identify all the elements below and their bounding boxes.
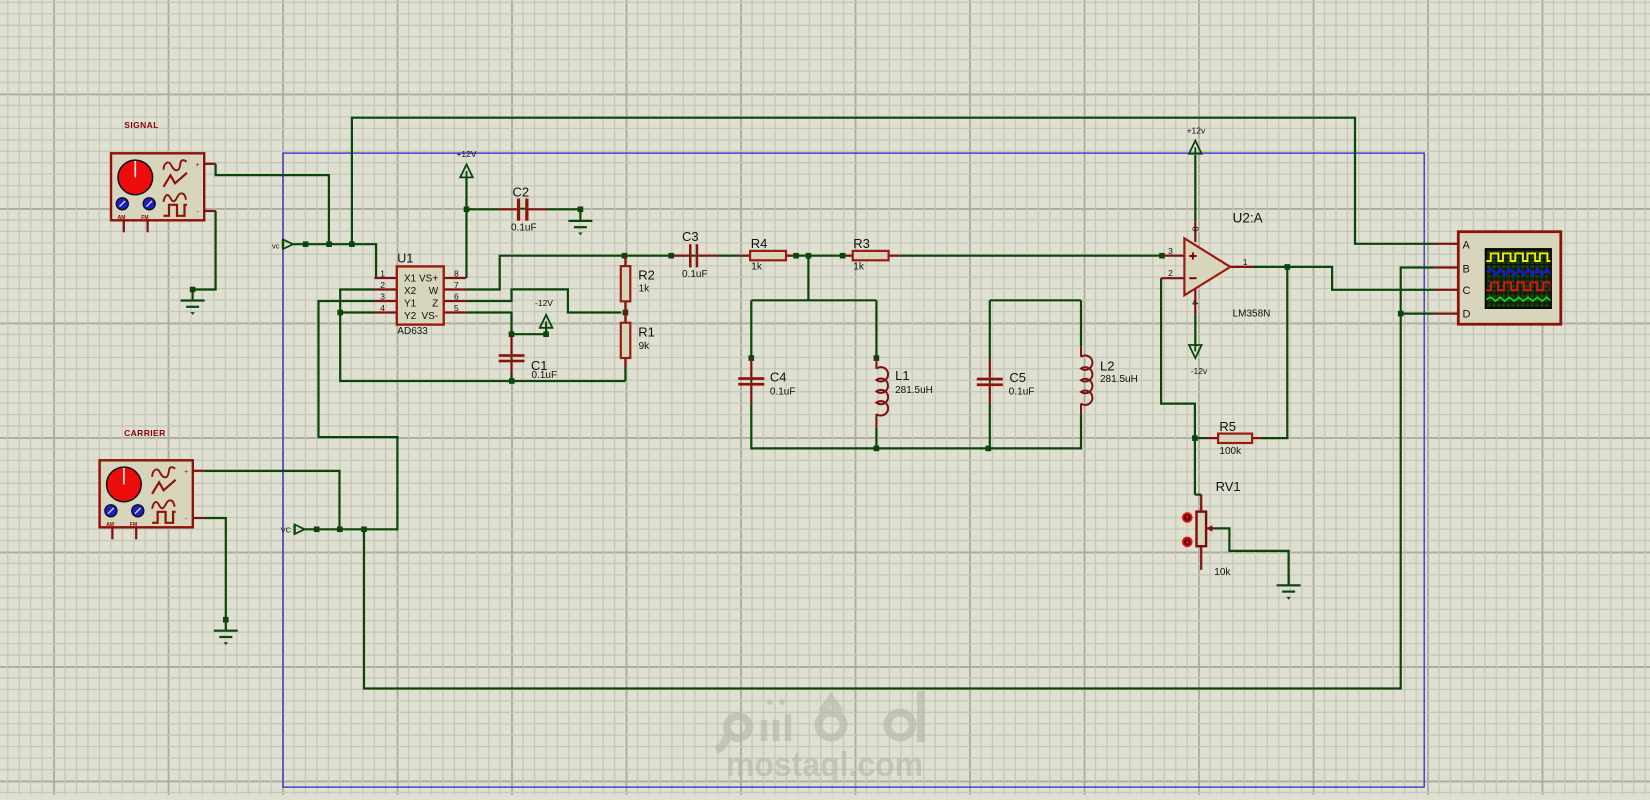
- svg-text:Y2: Y2: [404, 311, 417, 322]
- ground (C2): [568, 210, 592, 235]
- svg-text:AD633: AD633: [397, 326, 428, 337]
- wire node to tank1 top: [807, 256, 809, 301]
- wire carrier - to ground: [204, 518, 226, 620]
- wire -12V arrow stem: [545, 325, 547, 335]
- svg-text:100k: 100k: [1219, 446, 1242, 457]
- wire op-amp output to scope C: [1253, 267, 1434, 290]
- svg-text:U2:A: U2:A: [1233, 211, 1263, 226]
- inductor L2: [1081, 346, 1138, 414]
- ground (carrier generator): [214, 620, 238, 645]
- wire tank2 top bar: [990, 299, 1081, 301]
- svg-text:R2: R2: [638, 268, 655, 283]
- svg-text:1k: 1k: [639, 283, 651, 294]
- wire feedback pin2 to R5 left and RV1: [1161, 278, 1195, 494]
- capacitor C5: [977, 359, 1035, 404]
- capacitor C3: [674, 229, 718, 280]
- wire scope pin stubs A B C D: [1434, 244, 1458, 314]
- svg-text:VC: VC: [281, 526, 292, 535]
- svg-text:B: B: [1463, 263, 1470, 275]
- wire tank1 right drop: [875, 300, 877, 358]
- svg-text:281.5uH: 281.5uH: [895, 385, 933, 396]
- svg-text:R1: R1: [638, 325, 655, 340]
- wire U1 pin4 to pin2 riser: [340, 311, 374, 313]
- wire signal generator + to VC node: [216, 164, 329, 244]
- svg-text:0.1uF: 0.1uF: [511, 223, 537, 234]
- svg-text:VS+: VS+: [419, 274, 438, 285]
- wire branch to scope D: [1401, 313, 1434, 315]
- svg-text:Y1: Y1: [404, 299, 417, 310]
- svg-text:X1: X1: [404, 274, 417, 285]
- wire VC node row to U1 pin1: [293, 244, 376, 278]
- wire RV1 top jog: [1195, 494, 1201, 496]
- resistor R4: [738, 236, 793, 273]
- svg-text:0.1uF: 0.1uF: [1009, 387, 1035, 398]
- wire tank2 right drop: [1080, 300, 1082, 346]
- carrier generator CARRIER: [100, 428, 205, 540]
- svg-text:0.1uF: 0.1uF: [532, 370, 558, 381]
- oscilloscope (4-channel): [1458, 232, 1564, 325]
- wire U1 pin3 to carrier VC row: [305, 301, 398, 529]
- svg-text:A: A: [1463, 240, 1471, 252]
- svg-text:mostaql.com: mostaql.com: [726, 746, 923, 784]
- svg-text:U1: U1: [397, 252, 413, 266]
- wire R4 to R3: [793, 255, 845, 257]
- wire R3 to op-amp pin3: [899, 255, 1164, 257]
- wire C2 left: [467, 208, 500, 210]
- svg-text:L1: L1: [895, 368, 909, 383]
- svg-text:VS-: VS-: [422, 311, 439, 322]
- svg-text:C4: C4: [770, 370, 787, 385]
- svg-text:LM358N: LM358N: [1233, 309, 1271, 320]
- wire tank1 left drop: [750, 300, 752, 358]
- svg-text:SIGNAL: SIGNAL: [124, 120, 159, 130]
- wire R1 bottom to rail: [624, 367, 626, 381]
- svg-text:C2: C2: [513, 185, 530, 200]
- power -12v (op-amp): [1189, 345, 1208, 376]
- wire signal generator - to ground: [193, 211, 216, 290]
- node VC (upper): [272, 239, 293, 250]
- wire junction dots: [190, 207, 1404, 623]
- svg-text:8: 8: [454, 268, 459, 278]
- svg-text:D: D: [1463, 309, 1471, 321]
- svg-text:0.1uF: 0.1uF: [770, 387, 796, 398]
- wire C3 to R4: [718, 255, 739, 257]
- wire top rail to scope A: [352, 118, 1434, 245]
- svg-text:vc: vc: [272, 242, 280, 251]
- svg-text:2: 2: [1168, 268, 1173, 278]
- signal generator SIGNAL: [111, 120, 216, 233]
- svg-text:C: C: [1463, 285, 1471, 297]
- wire tank1 top bar: [751, 299, 876, 301]
- svg-text:1k: 1k: [853, 262, 865, 273]
- resistor R2: [621, 256, 655, 313]
- svg-text:W: W: [429, 286, 439, 297]
- ground (RV1): [1277, 574, 1301, 599]
- svg-text:L2: L2: [1100, 359, 1114, 374]
- svg-text:-12V: -12V: [535, 298, 553, 308]
- capacitor C1: [499, 334, 557, 381]
- svg-text:-12v: -12v: [1191, 366, 1208, 376]
- svg-text:R5: R5: [1219, 419, 1236, 434]
- svg-text:2: 2: [380, 280, 385, 290]
- svg-text:4: 4: [380, 303, 385, 313]
- wire U1 pin5 VS- to -12V: [466, 313, 546, 335]
- svg-text:C5: C5: [1009, 370, 1026, 385]
- power +12V (near C2): [456, 149, 476, 177]
- node VC (lower): [281, 525, 305, 535]
- ground (signal generator): [181, 290, 205, 315]
- svg-text:4: 4: [1190, 301, 1200, 306]
- wire C5 bottom link: [989, 404, 991, 449]
- svg-text:+12v: +12v: [1187, 126, 1206, 136]
- wire +12V rail to U1 pin8: [465, 177, 467, 278]
- wire tank bottom bar: [751, 403, 1081, 448]
- wire RV1 wiper to ground: [1214, 528, 1289, 585]
- svg-text:X2: X2: [404, 286, 417, 297]
- svg-text:1k: 1k: [751, 262, 763, 273]
- svg-text:0.1uF: 0.1uF: [682, 269, 708, 280]
- svg-text:RV1: RV1: [1216, 479, 1241, 494]
- op-amp U2:A LM358N: [1161, 211, 1270, 320]
- svg-text:Z: Z: [432, 299, 438, 310]
- power -12V (near C1): [535, 298, 553, 328]
- wire +12v to op-amp pin8: [1194, 155, 1196, 221]
- wire tank2 left drop: [989, 300, 991, 359]
- IC U1 AD633 multiplier: [375, 252, 467, 338]
- svg-text:C3: C3: [682, 229, 699, 244]
- svg-text:8: 8: [1191, 227, 1201, 232]
- svg-text:3: 3: [380, 291, 385, 301]
- svg-text:1: 1: [380, 268, 385, 278]
- wire carrier + to VC row: [204, 471, 339, 529]
- potentiometer RV1: [1183, 479, 1241, 578]
- wire op-amp pin4 to -12v arrow: [1194, 314, 1196, 345]
- svg-text:R3: R3: [853, 236, 870, 251]
- svg-text:R4: R4: [751, 236, 768, 251]
- wire feedback output to R5 right: [1261, 267, 1287, 438]
- svg-text:7: 7: [454, 280, 459, 290]
- wire VC row to scope B via bottom loop: [364, 268, 1434, 689]
- svg-text:+12V: +12V: [456, 149, 476, 159]
- wire U1 pin6 Z to R1-R2 junction: [466, 289, 621, 312]
- wire L1 bottom link: [875, 428, 877, 449]
- svg-text:3: 3: [1168, 246, 1173, 256]
- inductor L1: [876, 358, 933, 428]
- wire U1 pin7 W to C3: [466, 256, 674, 290]
- resistor R1: [621, 313, 655, 368]
- svg-text:6: 6: [454, 291, 459, 301]
- capacitor C4: [738, 358, 795, 403]
- svg-text:5: 5: [454, 303, 459, 313]
- wire U1 pin2 down to bottom rail: [340, 290, 625, 382]
- wire R5 left link: [1195, 437, 1207, 439]
- svg-text:1: 1: [1243, 257, 1248, 267]
- wire C2 right to ground: [547, 208, 581, 210]
- resistor R3: [845, 236, 899, 273]
- svg-text:10k: 10k: [1214, 567, 1231, 578]
- capacitor C2: [500, 185, 547, 234]
- power +12v (op-amp): [1187, 126, 1206, 154]
- svg-text:9k: 9k: [639, 341, 651, 352]
- svg-text:CARRIER: CARRIER: [124, 428, 166, 438]
- resistor R5: [1207, 419, 1261, 457]
- wire C1 bottom to rail: [510, 375, 512, 382]
- svg-text:281.5uH: 281.5uH: [1100, 374, 1138, 385]
